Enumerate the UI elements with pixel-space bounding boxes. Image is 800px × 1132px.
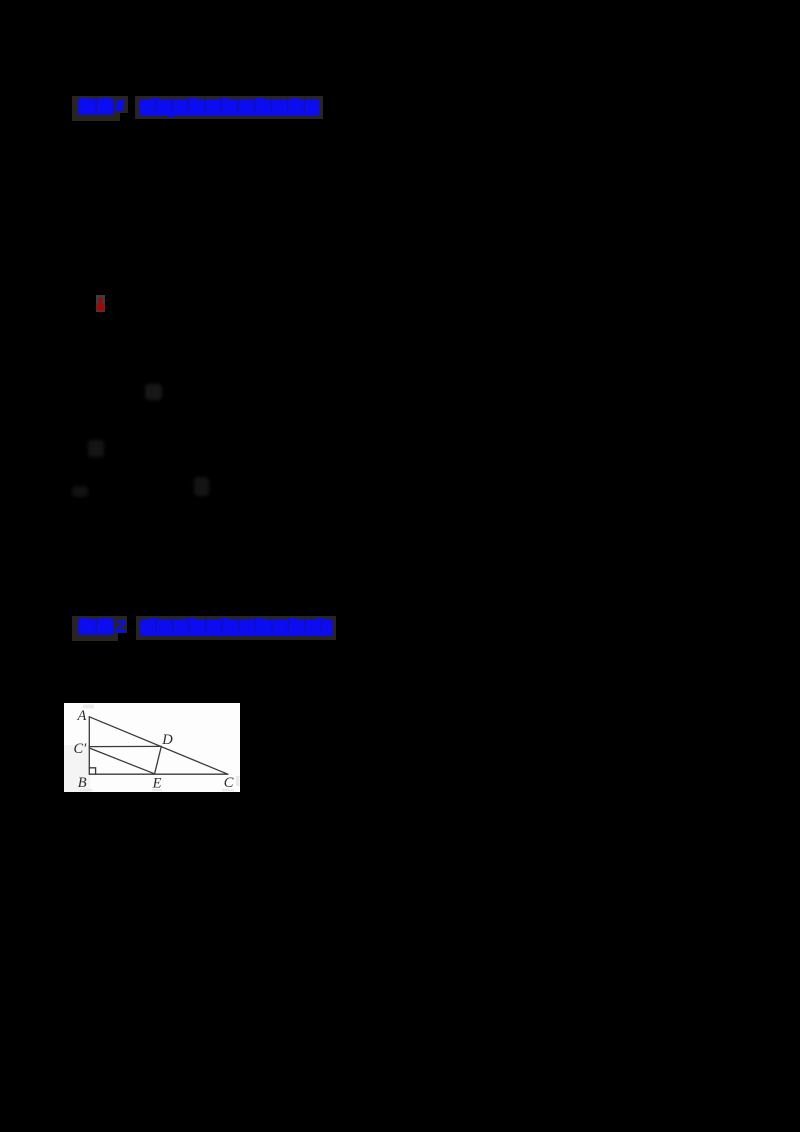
side BC (horizontal) [89,773,228,775]
scan smudge below label B [80,789,92,791]
svg-text:A: A [77,708,87,724]
svg-text:C′: C′ [74,741,88,757]
geometry figure: white panel [64,703,240,792]
heading 1: highlight box behind phrase [135,96,323,119]
scan smudge right of label C [236,776,239,786]
svg-text:C: C [224,775,234,791]
scan smudge above label A [83,705,94,709]
faint ghost glyph 1 [145,384,162,400]
segment C'E [89,748,154,774]
red answer mark highlight box [96,295,105,312]
heading 2: highlight box behind 题型2 label [72,616,118,641]
heading 2: digit 2 italic [115,620,126,632]
geometry figure: triangle diagram SVG [64,703,240,792]
faint ghost glyph 3 [72,486,88,497]
scan smudge below label E [152,789,162,791]
heading 2: phrase blue blob [136,616,336,642]
heading 1: bold blue label blob 题型 [72,96,328,122]
side AB (vertical) [88,717,90,774]
heading 2: bold blue label blob 题型 [72,616,328,642]
right angle mark at B [89,768,95,774]
heading 1: phrase blue blob [135,96,325,122]
heading 2: highlight box behind phrase [136,616,336,640]
segment DE [155,746,162,773]
faint ghost glyph 2 [88,440,104,457]
svg-text:E: E [152,775,162,791]
heading 1: digit 1 italic [115,99,125,111]
heading 1: highlight box behind digit 1 [120,96,128,113]
svg-text:D: D [161,732,173,748]
heading 1: highlight box behind 题型1 label [72,96,120,121]
faint ghost glyph 4 [194,477,209,496]
red answer mark glyph [96,295,105,312]
svg-text:B: B [78,775,87,791]
heading 2: highlight box behind digit 2 [118,616,127,633]
scan shading bottom-left of panel [64,745,90,792]
segment C'D [89,745,161,747]
side AC (hypotenuse) [89,717,228,774]
scan smudge below label C [222,789,234,791]
